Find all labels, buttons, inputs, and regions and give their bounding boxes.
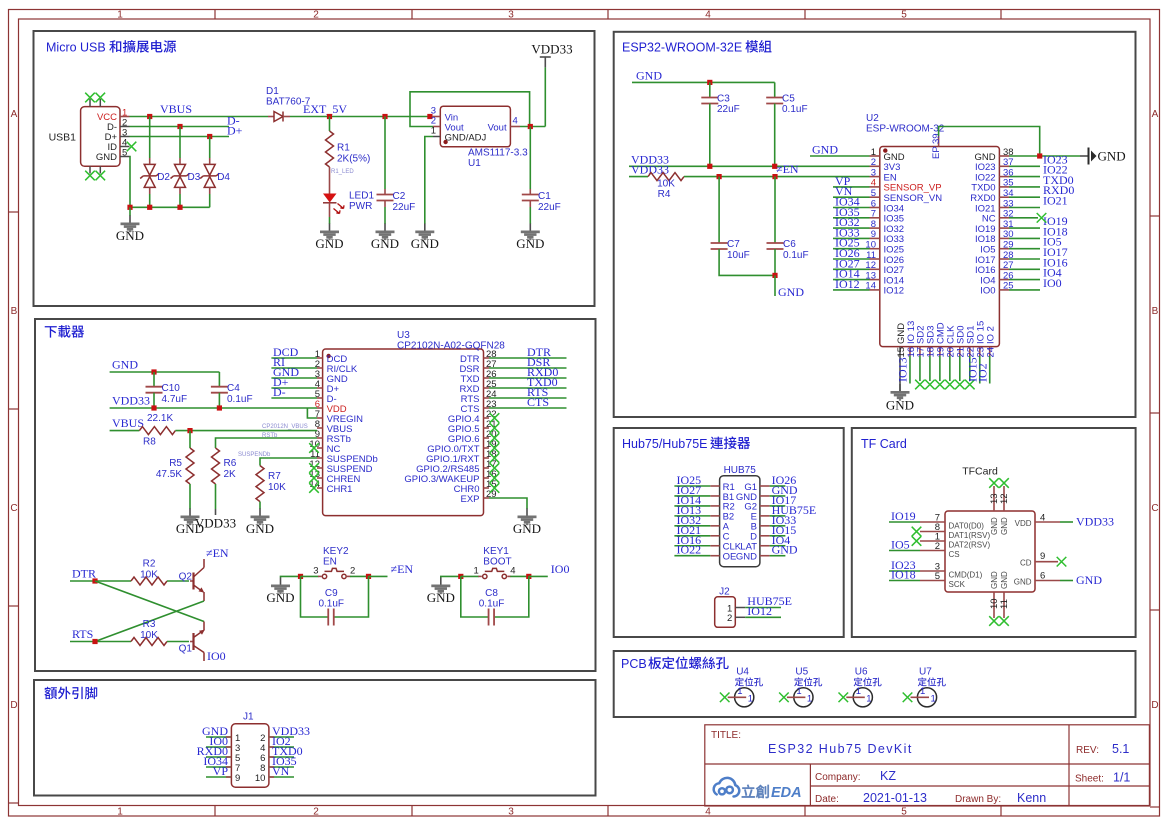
U3 pin 8 (VBUS) [315,419,353,435]
TFCard pin 4 (VDD) [1015,513,1073,529]
svg-text:VDD33: VDD33 [112,394,150,408]
wire C4 bottom to VDD33 rail [218,393,220,408]
svg-text:IO13: IO13 [896,357,910,382]
svg-text:1: 1 [796,686,801,697]
TFCard pin 7 (DAT0(D0)) [920,513,984,531]
junction VDD33 rail at C5 [772,164,777,169]
svg-text:4: 4 [705,10,711,21]
svg-text:2: 2 [727,613,732,624]
U2 pin 37 (IO23) [975,157,1014,173]
wire VDD33 rail to U3 pin6 VDD [110,407,317,409]
HUB75 pin G1 [744,482,785,493]
svg-text:J1: J1 [243,712,254,723]
svg-text:0.1uF: 0.1uF [227,394,253,405]
svg-text:Vout: Vout [488,122,507,133]
mounting hole U4 [720,667,763,707]
wire VBUS label segment [110,430,140,432]
J1 pin 2 [260,733,294,744]
U3 pin 11 (SUSPENDb) [310,449,378,465]
U1 pin 3 Vin [431,106,458,124]
wire net IO23 at TFCard [889,570,920,572]
svg-text:R2: R2 [143,559,156,570]
U3 pin 18 (GPIO.1/RXT) [426,449,496,465]
U1 pin 2 Vout left [431,116,464,134]
wire U2 pin 35 net TXD0 [1009,186,1040,188]
wire net IO18 at TFCard [889,580,920,582]
USB1 pin 1 (VCC) [97,108,130,124]
no-connect X U3 pin 22 [490,413,500,423]
no-connect X U2 pin 20 [945,380,955,390]
svg-text:1: 1 [920,686,925,697]
svg-text:EXT_5V: EXT_5V [303,102,347,116]
svg-text:C9: C9 [325,588,338,599]
wire U2 pin 14 net IO12 [833,289,870,291]
U2 pin 10 (IO25) [865,240,904,256]
U2 pin 9 (IO33) [870,229,905,245]
wire U2 pin 8 net IO32 [833,227,870,229]
svg-text:D+: D+ [227,124,243,138]
svg-text:4: 4 [513,116,518,127]
svg-text:KEY2: KEY2 [323,546,349,557]
svg-text:3: 3 [508,10,514,21]
U2 pin 6 (IO34) [870,198,905,214]
U2 pin 26 (IO4) [980,270,1013,286]
junction EXT_5V at R1 [327,114,332,119]
svg-text:R4: R4 [658,189,671,200]
svg-text:CP2012N_VBUS: CP2012N_VBUS [262,424,308,430]
svg-text:GND: GND [513,521,541,536]
svg-text:1: 1 [856,686,861,697]
regulator U1 AMS1117-3.3 body [440,106,510,147]
U3 pin 3 (GND) [315,369,348,385]
wire C5 bottom to VDD33 rail [774,104,776,167]
U2 pin 30 (IO18) [975,229,1014,245]
no-connect X TFCard pin 10 [989,616,999,626]
no-connect X U3 pin 20 [490,433,500,443]
wire U2 pin 29 net IO5 [1009,248,1040,250]
svg-text:CHR1: CHR1 [327,484,353,495]
wire VDD33 riser [544,67,546,126]
resistor R7 [256,466,264,502]
svg-text:KZ: KZ [880,769,896,783]
no-connect X TFCard pin 11 [999,616,1009,626]
wire U3 pin29 EXP to gnd [489,498,527,509]
junction RTS node [92,639,97,644]
svg-text:C1: C1 [538,191,551,202]
U2 pin 5 (SENSOR_VN) [870,188,943,204]
capacitor C3 [701,98,718,104]
U3 pin 20 (GPIO.6) [448,429,497,445]
wire left junction to switch KEY2 [301,575,319,577]
svg-text:0.1uF: 0.1uF [479,599,505,610]
svg-text:U2: U2 [866,113,879,124]
wire U2 pin 34 net RXD0 [1009,196,1040,198]
svg-text:4.7uF: 4.7uF [162,394,188,405]
wire C10 top lead [153,372,155,387]
ground symbol KEY2 [266,578,294,606]
wire C3 top lead [709,82,711,97]
wire U2 pin 10 net IO25 [833,248,870,250]
svg-text:1: 1 [474,565,479,576]
svg-text:12: 12 [999,493,1010,504]
capacitor C1 [522,195,539,201]
svg-text:KEY1: KEY1 [483,546,509,557]
svg-text:IO22: IO22 [677,543,702,557]
U2 pin 12 (IO27) [865,260,904,276]
svg-text:R8: R8 [143,437,156,448]
J1 pin 8 [260,763,294,774]
power flag VDD33 top [531,42,572,68]
wire U2 pin32 NC stub [1009,217,1038,219]
junction VDD33 rail at C4 [217,405,222,410]
wire U3 pin 4 net D+ [271,387,317,389]
wire R5 top lead [189,431,191,448]
HUB75 pin R2 [674,502,734,513]
wire DTR segment [70,580,131,582]
title block outline [705,725,1150,806]
U2 pin 18 (SD3) [926,326,937,358]
wire net IO19 at TFCard [889,521,920,523]
wire R8 to U3 pin8 VBUS [175,430,317,432]
svg-text:SCK: SCK [949,580,966,589]
pin numbers KEY2 [313,565,355,576]
svg-text:CTS: CTS [527,395,549,409]
svg-text:GND: GND [246,521,274,536]
U3 pin 19 (GPIO.0/TXT) [427,439,496,455]
svg-text:VN: VN [272,764,290,778]
connector HUB75 body [720,476,760,567]
svg-text:GND: GND [1014,578,1032,587]
no-connect X U3 pin 10 [309,443,319,453]
ground symbol U2 bottom [886,384,914,413]
no-connect X TFCard pin 12 [999,478,1009,488]
svg-text:VDD: VDD [1015,519,1032,528]
U3 pin 22 (GPIO.4) [448,409,497,425]
wire U2 pin 13 net IO14 [833,279,870,281]
svg-text:HUB75: HUB75 [724,465,757,476]
svg-text:ESP32-WROOM-32E: ESP32-WROOM-32E [622,41,742,55]
junction EXT_5V at U1 pin3 [427,114,432,119]
U3 pin 13 (CHREN) [309,469,360,485]
wire U3 pin11 SUSPENDb to R7 [260,458,317,466]
svg-text:RSTb: RSTb [262,433,278,439]
USB1 pin 5 (GND) [96,148,130,164]
U3 pin 23 (CTS) [461,399,497,415]
U2 pin 13 (IO14) [865,270,904,286]
svg-text:22uF: 22uF [393,202,416,213]
wire right junction to net KEY2 [369,575,388,577]
LED LED1 (PWR) [323,194,344,214]
no-connect X U2 pin 22 [965,380,975,390]
wire U2 pin1 GND [810,155,870,157]
wire C3 bottom to VDD33 rail [709,104,711,167]
section box ESP32 module [614,32,1136,417]
module U2 ESP-WROOM-32 body [880,147,1000,347]
svg-text:VP: VP [213,764,229,778]
transistor Q2 [190,559,204,601]
wire U1 pin4 Vout to output node [520,126,545,128]
section box Hub75 connector [614,428,844,637]
svg-text:IO21: IO21 [1043,194,1068,208]
svg-text:IO2: IO2 [975,363,989,382]
TFCard pin 13 (GND top) [989,486,1000,535]
svg-text:VDD33: VDD33 [531,42,572,57]
HUB75 pin OE [674,552,736,563]
wire U2 pin 7 net IO35 [833,217,870,219]
J2 pin 2 [727,613,781,624]
wire U1 pin2 Vout loop over the top [410,92,530,127]
TFCard pin 8 (DAT1(RSV)) [920,522,990,540]
wire VBUS from USB1 pin1 to diode D1 [130,116,269,118]
junction GND rail at C3 [707,80,712,85]
ic U3 CP2102N body [323,349,484,516]
wire gnd node down [774,275,776,296]
wire U2 pin 11 net IO26 [833,258,870,260]
J1 pin 10 [255,773,294,784]
HUB75 pin R1 [674,482,734,493]
U3 pin 17 (GPIO.2/RS485) [416,459,496,475]
no-connect X U2 pin 19 [935,380,945,390]
svg-text:USB1: USB1 [49,132,77,144]
svg-text:VBUS: VBUS [160,102,192,116]
wire U2 pin 27 net IO16 [1009,268,1040,270]
U2 pin 25 (IO0) [980,281,1013,297]
mounting hole U7 [903,667,946,707]
junction pin38 GND [1037,153,1042,158]
svg-text:5: 5 [901,807,907,818]
svg-text:1: 1 [866,693,871,704]
svg-text:TITLE:: TITLE: [711,730,741,741]
wire EN rail left segment [629,176,648,178]
svg-text:B: B [11,306,18,317]
wire U2 pin 6 net IO34 [833,207,870,209]
junction VBUS at R5 [187,428,192,433]
U2 pin 31 (IO19) [975,219,1014,235]
junction DTR node [92,578,97,583]
capacitor C7 [711,243,728,249]
ground symbol R5 [176,509,204,537]
svg-text:DAT1(RSV): DAT1(RSV) [949,531,991,540]
TFCard pin 2 (CS) [920,541,960,559]
U3 pin 6 (VDD) [315,399,347,415]
wire EP to GND net over the top [939,127,1040,157]
wire U2 pin 26 net IO4 [1009,279,1040,281]
U2 pin 21 (SD0) [956,326,967,358]
svg-text:9: 9 [235,773,240,784]
connector J2 body [715,597,736,628]
junction EN rail at C7 [717,174,722,179]
svg-text:GND: GND [315,236,343,251]
wire U2 pin 22 down [969,356,971,381]
svg-text:D4: D4 [217,172,230,183]
wire R5 to gnd [189,484,191,509]
connector J1 body [231,724,269,787]
svg-text:4: 4 [705,807,711,818]
wire cap loop C8 [461,576,489,617]
svg-text:RTS: RTS [72,627,93,641]
svg-text:C7: C7 [727,239,740,250]
HUB75 pin CLK [674,542,741,553]
svg-text:GND: GND [736,552,757,563]
resistor R3 [131,638,167,646]
svg-text:GND: GND [1076,573,1102,587]
svg-text:CD: CD [1020,559,1032,568]
svg-text:GND: GND [812,143,838,157]
wire U2 pin15 GND down [899,356,901,391]
ground symbol C1 [516,224,544,252]
J1 pin 1 [206,733,240,744]
J1 pin 5 [206,753,240,764]
switch KEY1 [478,568,511,578]
capacitor C4 [211,387,228,393]
svg-text:2K: 2K [224,469,237,480]
svg-text:BOOT: BOOT [483,557,511,568]
U1 pin1 marker dot [443,140,447,144]
svg-text:U3: U3 [397,330,410,341]
svg-text:Kenn: Kenn [1017,791,1046,805]
section box TF Card [852,428,1136,637]
svg-text:A: A [1152,109,1159,120]
wire switch to right junction KEY1 [510,575,529,577]
wire U2 pin 4 net VP [833,186,870,188]
wire R2 to Q2 base [167,580,189,582]
U2 pin 33 (IO21) [975,198,1014,214]
svg-text:D2: D2 [157,172,170,183]
wire C2 to gnd [384,207,386,224]
section box downloader [35,319,596,671]
svg-text:IO12: IO12 [884,286,905,297]
no-connect X U2 pin32 [1037,213,1047,223]
svg-text:GND: GND [427,590,455,605]
U1 pin 4 Vout right [488,116,520,134]
U2 pin 2 (3V3) [870,157,901,173]
junction VDD33 rail at C3 [707,164,712,169]
svg-text:3: 3 [508,807,514,818]
U3 pin 16 (GPIO.3/WAKEUP) [404,469,496,485]
U3 pin 9 (RSTb) [315,429,351,445]
U2 pin 28 (IO17) [975,250,1014,266]
TFCard pin 5 (SCK) [920,571,966,589]
HUB75 pin A [674,522,729,533]
no-connect X TFCard pin 8 [912,527,922,537]
wire U2 pin38 GND to flag [1009,155,1080,157]
junction VDD33 rail at C10 [151,405,156,410]
junction D- at D3 [177,124,182,129]
U3 pin 24 (RTS) [461,389,497,405]
svg-text:U5: U5 [795,667,808,678]
svg-text:10K: 10K [140,570,158,581]
svg-text:C6: C6 [783,239,796,250]
svg-text:D3: D3 [188,172,201,183]
HUB75 pin GND [736,492,786,503]
capacitor C8 [489,609,495,626]
no-connect X U3 pin 13 [309,473,319,483]
svg-text:5: 5 [935,571,940,582]
no-connect X U2 pin 21 [955,380,965,390]
HUB75 pin LAT [740,542,785,553]
wire right junction to net KEY1 [529,575,548,577]
junction D+ at D4 [207,134,212,139]
capacitor C9 [328,609,334,626]
wire GND rail downloader [110,371,220,373]
capacitor C1 leads [529,189,531,207]
wire U2 pin 20 down [949,356,951,381]
svg-text:IO12: IO12 [835,277,860,291]
wire U2 pin 21 down [959,356,961,381]
diode D3 (TVS) [171,158,190,194]
wire net IO5 at TFCard [889,550,920,552]
wire EXT_5V down to R1 [329,117,331,132]
ground symbol U1 [411,224,439,252]
mounting hole U5 [779,667,822,707]
U2 pin 23 (IO 15) [976,321,987,358]
section title downloader [45,325,84,338]
USB1 pin 3 (D+) [105,128,130,144]
U3 pin 25 (RXD) [459,379,496,395]
wire U3 pin 24 net RTS [489,397,567,399]
U2 pin 34 (RXD0) [970,188,1013,204]
svg-text:GND: GND [990,517,999,535]
resistor R4 [648,173,684,181]
svg-text:VDD33: VDD33 [1076,515,1114,529]
USB1 pin 4 (ID) [108,138,130,154]
svg-text:1: 1 [748,693,753,704]
svg-text:2: 2 [313,10,319,21]
svg-text:SUSPENDb: SUSPENDb [238,452,271,458]
junction VBUS at D2 [147,114,152,119]
ground symbol USB section [116,216,144,244]
wire U3 pin 25 net TXD0 [489,387,567,389]
U2 pin 20 (CLK) [946,325,957,358]
wire U1 pin1 to gnd [425,137,433,225]
wire U2 pin 37 net IO23 [1009,165,1040,167]
capacitor C10 [146,387,163,393]
wire D2 bottom to gnd rail [149,194,151,207]
HUB75 pin B1 [674,492,734,503]
diode D2 (TVS) [140,158,159,194]
HUB75 pin G2 [744,502,785,513]
J1 pin 3 [206,743,240,754]
svg-text:IO12: IO12 [747,604,772,618]
switch KEY2 [318,568,351,578]
svg-text:PCB: PCB [621,657,647,671]
no-connect X U2 pin 17 [915,380,925,390]
no-connect X U3 pin 14 [309,483,319,493]
J2 pin 1 [727,603,781,614]
capacitor C6 [767,243,784,249]
svg-text:1: 1 [737,686,742,697]
wire U3 pin 3 net GND [271,377,317,379]
no-connect X U3 pin 12 [309,463,319,473]
svg-text:GND: GND [116,228,144,243]
U3 pin 14 (CHR1) [309,479,352,495]
U3 pin 2 (RI/CLK) [315,359,358,375]
diode D4 (TVS) [200,158,219,194]
svg-text:C5: C5 [782,94,795,105]
USB1 pin4 ID no-connect X [127,142,137,152]
svg-text:IO18: IO18 [891,568,916,582]
U3 pin 10 (NC) [309,439,340,455]
ground symbol R7 [246,509,274,537]
junction right KEY1 [526,574,531,579]
U2 pin 27 (IO16) [975,260,1014,276]
U3 pin 4 (D+) [315,379,340,395]
svg-text:C3: C3 [717,94,730,105]
junction GND rail at C10 [151,369,156,374]
U3 pin 27 (DSR) [459,359,496,375]
svg-text:47.5K: 47.5K [156,469,182,480]
resistor R2 [131,577,167,585]
